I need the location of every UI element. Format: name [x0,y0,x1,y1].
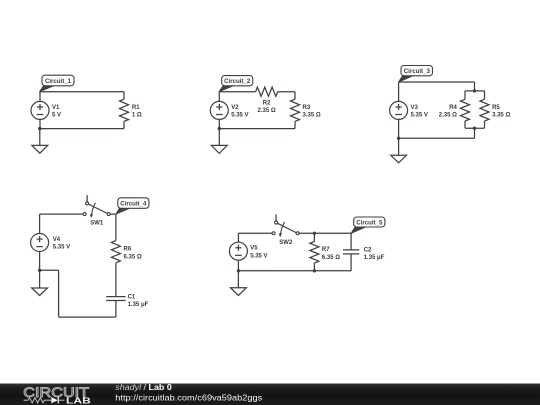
label R4 2.35 ohm [439,105,458,119]
capacitor C2 [343,233,359,270]
wire bottom circuit 3 [399,128,475,138]
resistor R1 [120,92,129,129]
label Circuit_3 [399,66,433,83]
svg-text:Circuit_3: Circuit_3 [404,68,431,75]
svg-text:R4: R4 [449,105,457,111]
svg-text:R7: R7 [322,247,330,253]
wire top circuit 1 [40,91,124,93]
junction R7 top [313,232,316,235]
wire SW1 to node circuit 4 [110,213,116,215]
wire R6 to C1 [115,263,117,297]
svg-text:R6: R6 [124,247,132,253]
label V2 5.35 V [231,105,248,119]
label R7 6.35 ohm [322,247,340,261]
svg-text:Circuit_4: Circuit_4 [120,200,147,207]
svg-text:LAB: LAB [66,396,91,405]
svg-text:5.35 V: 5.35 V [231,113,248,119]
wire SW2 to C2 node [299,232,351,234]
CircuitLab logo resistor-diode glyph [24,397,65,403]
wire bottom circuit 2 [219,128,295,130]
svg-text:http://circuitlab.com/c69va59a: http://circuitlab.com/c69va59ab2ggs [115,392,262,402]
switch SW1 [83,195,110,227]
label C2 1.35 uF [364,247,385,261]
wire bottom circuit 1 [40,128,124,130]
resistor R3 [291,99,300,128]
wire bottom rail circuit 4 [40,270,116,317]
svg-text:SW2: SW2 [279,240,293,246]
svg-text:1.35 μF: 1.35 μF [364,255,385,261]
svg-text:V3: V3 [411,105,419,111]
svg-text:Circuit_5: Circuit_5 [356,219,383,226]
wire parallel top stub [465,90,485,92]
ground circuit 1 [32,129,48,154]
label V1 5 V [52,105,61,119]
svg-text:1.35 μF: 1.35 μF [128,302,149,308]
ground circuit 4 [32,270,48,295]
wire top-right circuit 2 [278,92,295,100]
voltage source V1 [31,92,49,129]
label Circuit_5 [351,217,385,233]
svg-text:C1: C1 [128,294,136,300]
label Circuit_1 [40,75,74,92]
svg-text:Circuit_2: Circuit_2 [224,78,251,85]
svg-text:V5: V5 [250,246,258,252]
label R1 1 ohm [132,105,142,119]
label R5 3.35 ohm [492,105,510,119]
wire top-left circuit 2 [219,91,255,93]
ground circuit 2 [211,129,227,154]
junction circuit 2 [218,127,221,130]
wire node to R6 [115,214,117,241]
label C1 1.35 uF [128,294,149,308]
svg-text:5.35 V: 5.35 V [53,245,70,251]
svg-text:5.35 V: 5.35 V [411,113,428,119]
svg-text:6.35 Ω: 6.35 Ω [124,254,142,260]
switch SW2 [272,214,299,246]
svg-text:V4: V4 [53,237,61,243]
label R2 2.35 ohm [258,101,276,115]
wire C1 to bottom rail [115,301,117,318]
svg-text:SW1: SW1 [90,221,104,227]
ground circuit 3 [391,138,407,163]
voltage source V5 [229,233,247,270]
junction circuit 3 [397,137,400,140]
svg-text:V2: V2 [231,105,239,111]
junction circuit 4 [38,269,41,272]
svg-text:2.35 Ω: 2.35 Ω [258,108,276,114]
wire V5 to SW2 [238,232,272,234]
label Circuit_2 [219,76,253,92]
resistor R4 [461,91,470,128]
resistor R6 [111,241,120,263]
svg-text:5 V: 5 V [52,113,61,119]
svg-text:R1: R1 [132,105,140,111]
junction R7 bottom [313,269,316,272]
voltage source V2 [210,92,228,129]
junction top parallel circuit 3 [473,89,476,92]
svg-text:6.35 Ω: 6.35 Ω [322,255,340,261]
label R6 6.35 ohm [124,247,142,261]
svg-text:V1: V1 [52,105,60,111]
svg-text:Circuit_1: Circuit_1 [45,78,72,85]
svg-text:R3: R3 [303,105,311,111]
svg-text:1 Ω: 1 Ω [132,113,142,119]
svg-text:C2: C2 [364,247,372,253]
svg-text:3.35 Ω: 3.35 Ω [303,113,321,119]
svg-text:R5: R5 [492,105,500,111]
wire top circuit 3 [399,82,475,91]
junction bottom parallel circuit 3 [473,127,476,130]
svg-text:2.35 Ω: 2.35 Ω [439,113,457,119]
svg-text:shadyl / Lab 0: shadyl / Lab 0 [115,383,172,392]
label V3 5.35 V [411,105,428,119]
voltage source V4 [31,214,49,270]
wire parallel bottom stub [465,127,485,129]
ground circuit 5 [231,271,247,296]
capacitor C1 [106,296,125,298]
svg-text:R2: R2 [263,101,271,107]
junction circuit 1 [38,127,41,130]
label Circuit_4 [116,198,149,214]
resistor R5 [480,91,489,128]
junction V5 bottom [237,269,240,272]
voltage source V3 [390,82,408,138]
svg-text:5.35 V: 5.35 V [250,253,267,259]
label V5 5.35 V [250,246,267,260]
wire bottom circuit 5 [238,270,351,272]
resistor R2 [256,87,278,96]
wire V4 to SW1 [40,213,84,215]
resistor R7 [310,233,319,270]
svg-text:3.35 Ω: 3.35 Ω [492,113,510,119]
label R3 3.35 ohm [303,105,321,119]
label V4 5.35 V [53,237,70,251]
